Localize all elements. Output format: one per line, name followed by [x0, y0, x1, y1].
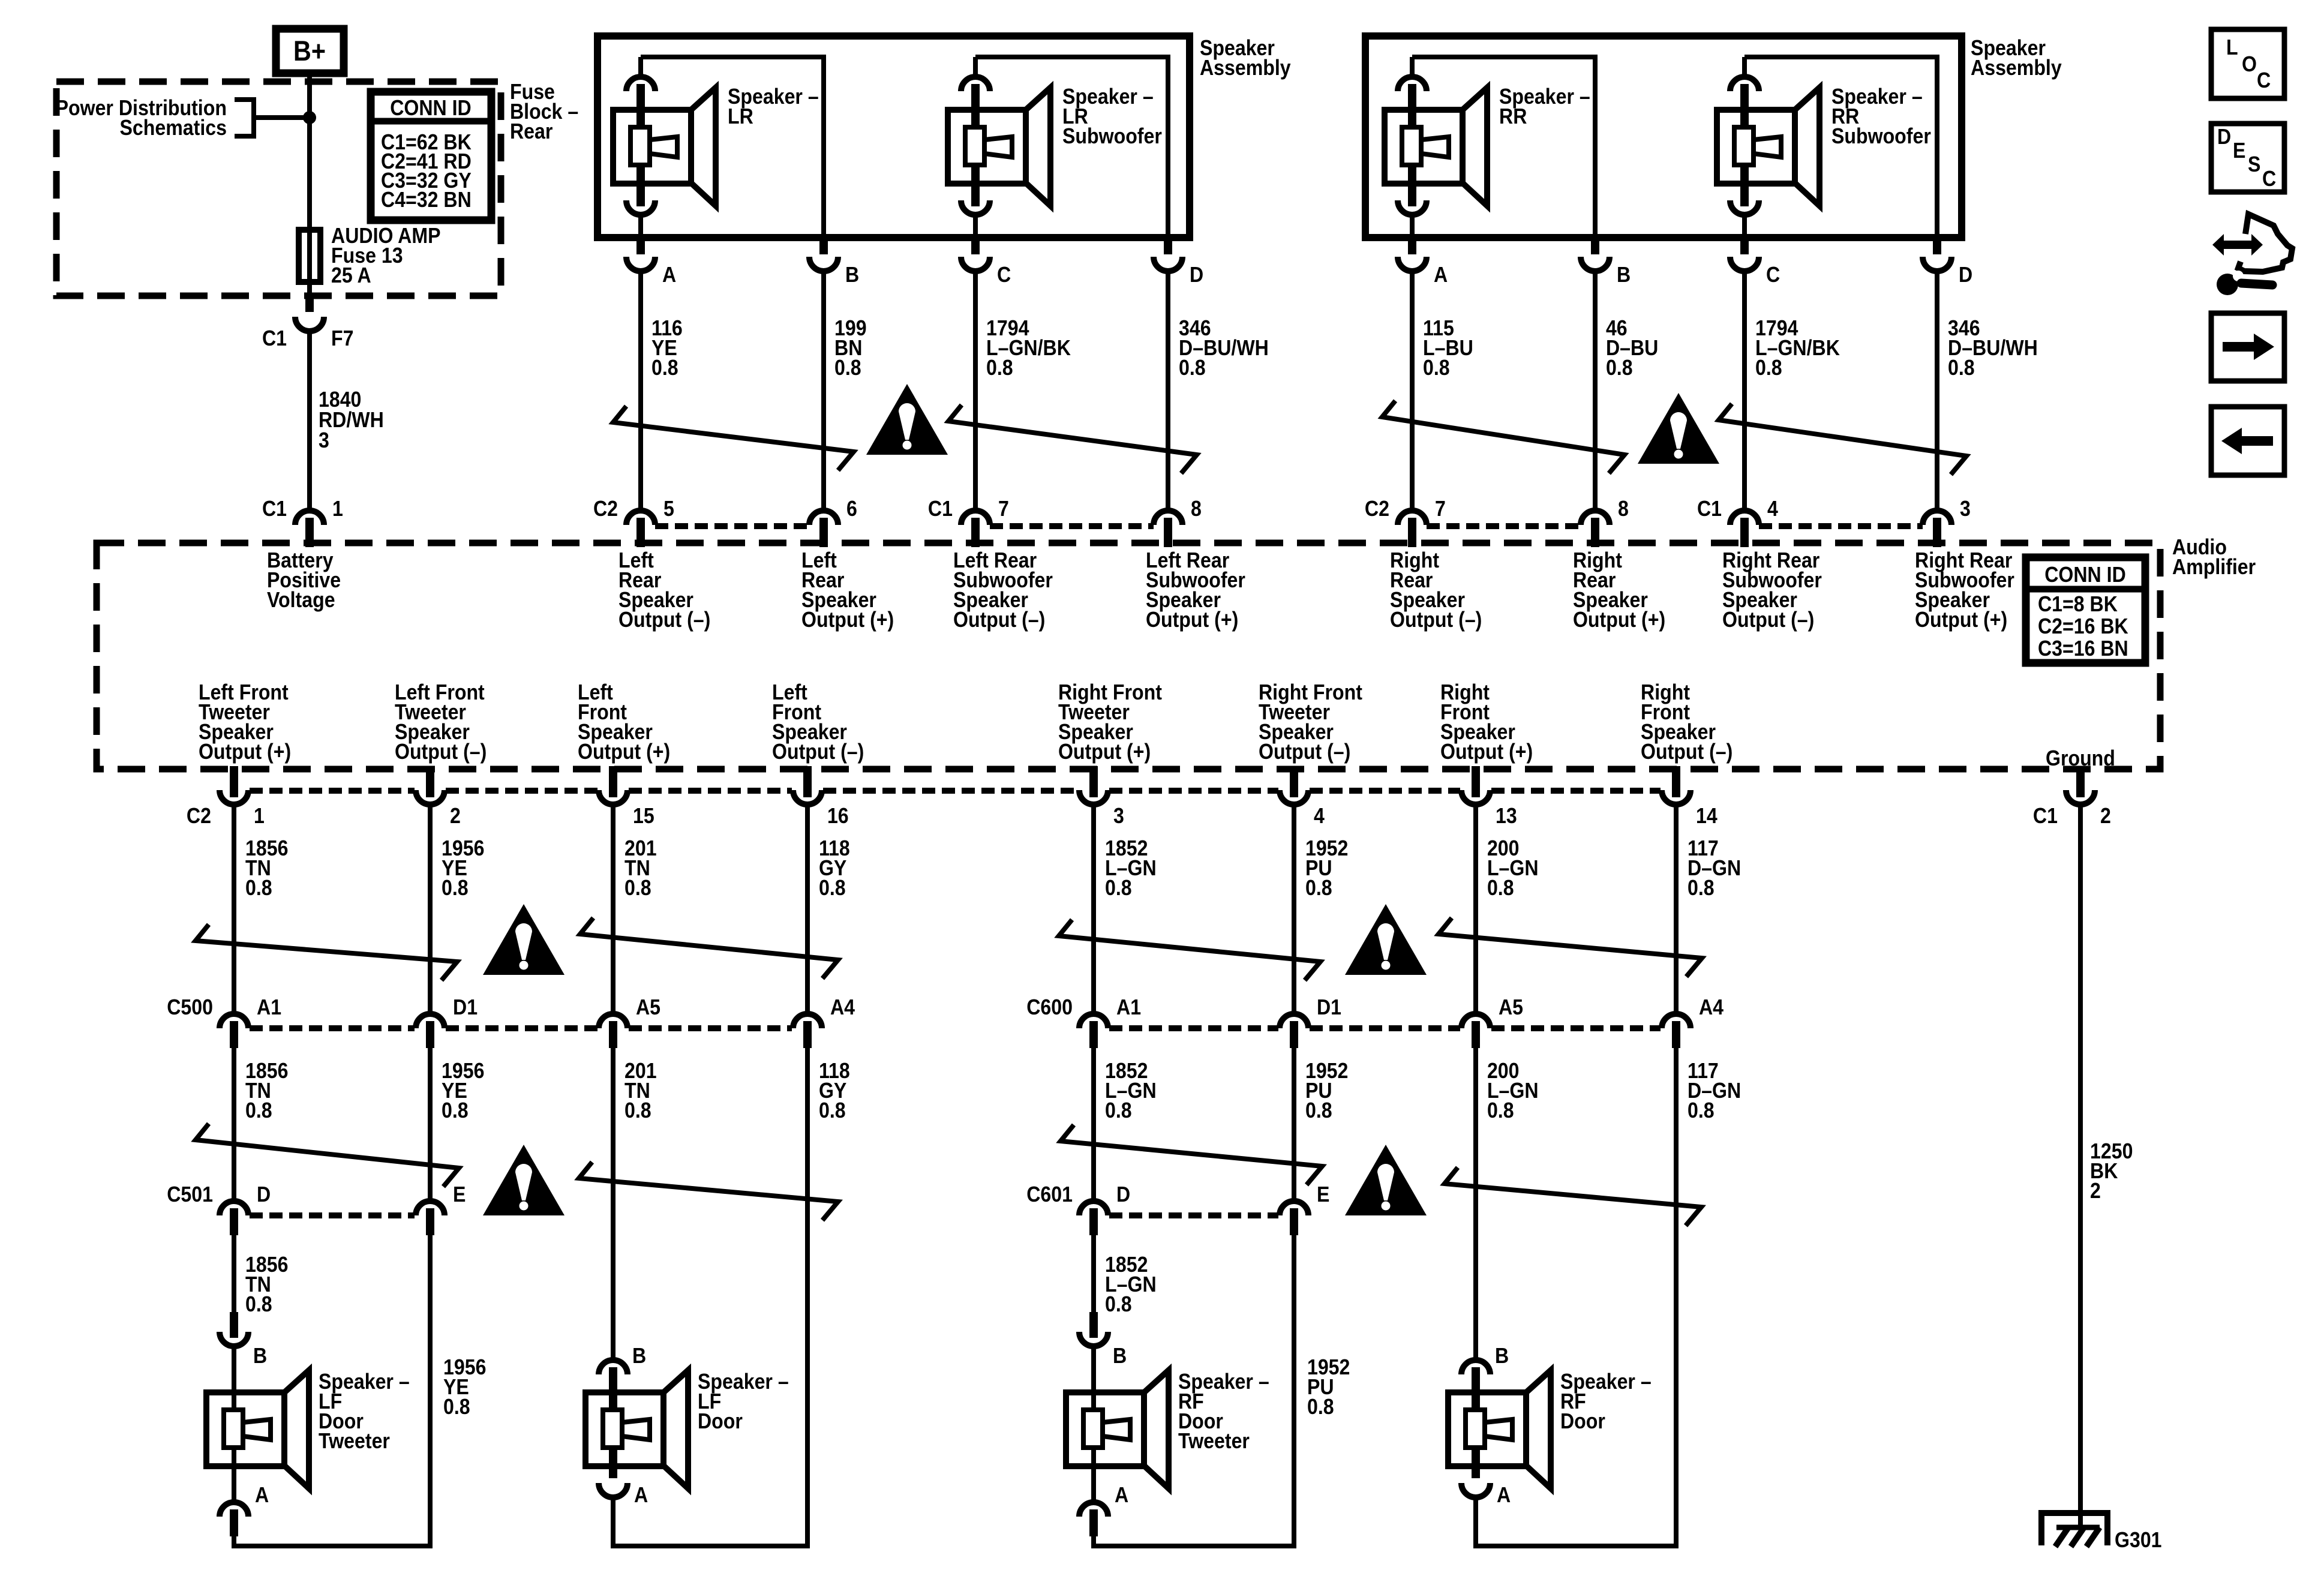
svg-text:S: S: [2248, 152, 2260, 176]
svg-text:Door: Door: [698, 1409, 743, 1433]
svg-text:3: 3: [1960, 497, 1971, 521]
connector C600 pin D1: [1280, 1014, 1308, 1048]
connector C601 pin D: [1079, 1201, 1108, 1235]
speaker symbol Speaker – LF Door: [585, 1370, 688, 1488]
svg-text:0.8: 0.8: [624, 1098, 651, 1122]
svg-text:1: 1: [254, 804, 265, 828]
label C1 F7: [262, 326, 354, 350]
twisted-pair symbol pair 1852/1952: [1059, 920, 1320, 980]
connector C500 pin A5: [599, 1014, 627, 1048]
wire 1852 L–GN (C501 to tweeter): [1091, 1235, 1096, 1314]
svg-text:6: 6: [846, 497, 857, 521]
svg-text:B: B: [1113, 1344, 1127, 1368]
wire 115 L–BU (speaker to amplifier): [1410, 271, 1415, 511]
amplifier label Left Front Speaker Output (–): [772, 680, 864, 764]
junction node dot: [303, 111, 316, 124]
wire top terminal of Speaker – RR: [1410, 57, 1415, 78]
svg-text:L: L: [2226, 35, 2238, 59]
wire 1250 BK 2 (ground): [2078, 804, 2083, 1527]
svg-text:D: D: [1116, 1182, 1130, 1206]
warning triangle door right pair: [1345, 1145, 1427, 1215]
label wire 1856 TN (below C500/C600): [245, 1059, 288, 1122]
svg-text:C1=8 BK: C1=8 BK: [2038, 592, 2118, 616]
svg-text:D: D: [2217, 125, 2231, 149]
dotted connector line C600: [1109, 1025, 1278, 1031]
amplifier output pin 4: [1280, 766, 1308, 804]
wire 1952 PU (below C500/C600): [1292, 1048, 1296, 1201]
wire 117 D–GN (amplifier to connector): [1674, 804, 1679, 1014]
svg-text:B: B: [1617, 263, 1631, 287]
twisted-pair symbol pair 201/118 lower: [579, 1162, 838, 1220]
connector at bottom terminal of Speaker – RR Subwoofer: [1730, 165, 1759, 215]
svg-text:4: 4: [1314, 804, 1325, 828]
svg-text:0.8: 0.8: [986, 356, 1013, 380]
connector pin A of Speaker – RF Door: [1461, 1448, 1490, 1497]
svg-text:Output (+): Output (+): [199, 740, 291, 764]
wire return loop 1022-1346: [613, 1048, 807, 1546]
label Speaker – RF Door: [1560, 1370, 1652, 1433]
label Speaker – LF Door: [698, 1370, 789, 1433]
connector C500 pin A4: [793, 1014, 822, 1048]
label wire 1956 YE: [442, 836, 484, 900]
amplifier label Right Rear Subwoofer Speaker Output (–): [1722, 548, 1822, 632]
svg-text:C601: C601: [1026, 1182, 1073, 1206]
wire return loop 2460-2794: [1476, 1048, 1676, 1546]
wire 1840 RD/WH 3 battery feed to amplifier: [307, 331, 312, 511]
wire pin A of Speaker – RF Door to loop: [1473, 1497, 1478, 1548]
amplifier output pin 1 conn C2: [220, 766, 248, 804]
speaker symbol Speaker – RF Door Tweeter: [1066, 1370, 1169, 1488]
svg-text:A: A: [634, 1483, 648, 1507]
label wire 1952 PU (return): [1307, 1355, 1350, 1419]
icon box LOC: [2211, 29, 2284, 98]
connector C501 pin E: [416, 1201, 445, 1235]
connector C600 pin A4: [1662, 1014, 1691, 1048]
svg-text:13: 13: [1496, 804, 1517, 828]
svg-text:0.8: 0.8: [819, 876, 846, 900]
wire from bottom terminal of Speaker – LF Door Tweeter: [232, 1466, 236, 1503]
amplifier label Right Front Tweeter Speaker Output (+): [1058, 680, 1162, 764]
svg-text:D1: D1: [453, 995, 478, 1019]
svg-text:0.8: 0.8: [834, 356, 861, 380]
svg-text:0.8: 0.8: [245, 1292, 272, 1316]
svg-text:B+: B+: [293, 36, 326, 67]
assembly pin C (right): [1730, 235, 1759, 271]
label wire 117 D–GN (below C500/C600): [1688, 1059, 1741, 1122]
wire into top terminal of Speaker – LF Door Tweeter: [232, 1346, 236, 1466]
ground symbol G301: [2041, 1513, 2107, 1547]
connector pin A of Speaker – RF Door Tweeter: [1079, 1502, 1108, 1536]
wire return loop 1823-2157: [1094, 1235, 1294, 1546]
amplifier label Right Front Tweeter Speaker Output (–): [1259, 680, 1362, 764]
amplifier input pin 6 (second of pair): [809, 511, 838, 547]
connector at top terminal of Speaker – RR Subwoofer: [1730, 77, 1759, 127]
amplifier output pin 15: [599, 766, 627, 804]
amplifier label Left Front Tweeter Speaker Output (+): [199, 680, 291, 764]
svg-text:Tweeter: Tweeter: [1178, 1429, 1250, 1453]
svg-text:0.8: 0.8: [1688, 1098, 1715, 1122]
svg-text:C: C: [2262, 167, 2276, 191]
label Speaker – RR: [1499, 85, 1590, 128]
svg-text:Subwoofer: Subwoofer: [1831, 124, 1931, 148]
warning triangle left assembly: [866, 384, 948, 455]
amplifier label Right Front Speaker Output (–): [1641, 680, 1733, 764]
svg-text:C501: C501: [167, 1182, 213, 1206]
svg-text:A5: A5: [636, 995, 660, 1019]
svg-text:C2: C2: [593, 497, 618, 521]
amplifier label Right Front Speaker Output (+): [1440, 680, 1533, 764]
speaker symbol Speaker – RR: [1385, 88, 1487, 206]
svg-text:LR: LR: [728, 104, 753, 128]
label wire 1856 TN: [245, 836, 288, 900]
assembly pin A (right): [1398, 235, 1427, 271]
svg-text:A4: A4: [1699, 995, 1724, 1019]
label Speaker – LR Subwoofer: [1062, 85, 1162, 148]
svg-text:A1: A1: [1116, 995, 1141, 1019]
svg-text:A: A: [662, 263, 676, 287]
wire 1956 YE (amplifier to connector): [428, 804, 433, 1014]
fuse AUDIO AMP Fuse 13 25A: [299, 230, 320, 282]
label wire 1952 PU: [1305, 836, 1348, 900]
dotted connector line amp bottom pins 1-14: [250, 788, 415, 794]
assembly pin B (right): [1581, 235, 1610, 271]
svg-text:D1: D1: [1317, 995, 1341, 1019]
svg-text:Output (+): Output (+): [1146, 608, 1238, 632]
label wire 201 TN (below C500/C600): [624, 1059, 657, 1122]
label wire 1794 L–GN/BK: [986, 316, 1071, 380]
twisted-pair symbol LR subwoofer pair: [948, 405, 1197, 473]
label Power Distribution Schematics: [56, 96, 227, 140]
svg-text:Output (+): Output (+): [1440, 740, 1533, 764]
svg-text:7: 7: [1435, 497, 1446, 521]
connector C601 pin E: [1280, 1201, 1308, 1235]
svg-text:Output (–): Output (–): [1641, 740, 1733, 764]
warning triangle right assembly: [1638, 393, 1719, 464]
svg-text:C4=32 BN: C4=32 BN: [381, 188, 472, 212]
svg-text:Subwoofer: Subwoofer: [1062, 124, 1162, 148]
CONN ID table of fuse block: [371, 92, 491, 220]
amplifier label Right Rear Speaker Output (+): [1573, 548, 1665, 632]
label wire 201 TN: [624, 836, 657, 900]
label Speaker – LR: [728, 85, 819, 128]
svg-text:0.8: 0.8: [624, 876, 651, 900]
svg-text:Rear: Rear: [510, 119, 553, 143]
svg-text:C1: C1: [2033, 804, 2058, 828]
speaker symbol Speaker – LR Subwoofer: [948, 88, 1050, 206]
svg-text:A5: A5: [1499, 995, 1523, 1019]
label wire 115 L–BU: [1423, 316, 1473, 380]
assembly pin D (left): [1154, 235, 1182, 271]
svg-text:B: B: [1495, 1344, 1509, 1368]
twisted-pair symbol LR speaker pair: [613, 406, 854, 470]
svg-text:0.8: 0.8: [819, 1098, 846, 1122]
label Speaker – LF Door Tweeter: [319, 1370, 410, 1453]
connector C600 pin A1: [1079, 1014, 1108, 1048]
dotted connector line C601: [1109, 1212, 1278, 1218]
svg-text:C2=16 BK: C2=16 BK: [2038, 614, 2128, 638]
warning triangle front right pair: [1345, 904, 1427, 975]
twisted-pair symbol pair 201/118: [580, 918, 838, 978]
svg-text:0.8: 0.8: [1105, 876, 1132, 900]
CONN ID table of amplifier: [2026, 557, 2145, 663]
svg-text:CONN ID: CONN ID: [2044, 563, 2126, 587]
speaker symbol Speaker – RF Door: [1448, 1370, 1551, 1488]
wire loop inside assembly for Speaker – LR: [641, 57, 824, 238]
wire pin A of Speaker – LF Door to loop: [611, 1497, 615, 1548]
svg-text:Output (+): Output (+): [578, 740, 670, 764]
icon box arrow right: [2211, 313, 2284, 381]
svg-text:F7: F7: [331, 326, 353, 350]
icon diagnostic tool (arrow, outline, wrench): [2212, 214, 2292, 295]
svg-text:7: 7: [998, 497, 1009, 521]
svg-text:0.8: 0.8: [245, 876, 272, 900]
wire loop inside assembly for Speaker – RR: [1412, 57, 1595, 238]
label wire 116 YE: [651, 316, 683, 380]
speaker symbol Speaker – LF Door Tweeter: [206, 1370, 309, 1488]
svg-text:0.8: 0.8: [1307, 1395, 1334, 1419]
wire 1952 PU (amplifier to connector): [1292, 804, 1296, 1014]
connector pin A of Speaker – LF Door: [599, 1448, 627, 1497]
label wire 200 L–GN (below C500/C600): [1487, 1059, 1539, 1122]
svg-text:2: 2: [2090, 1179, 2101, 1203]
amplifier label Left Rear Speaker Output (+): [801, 548, 894, 632]
svg-text:5: 5: [663, 497, 674, 521]
twisted-pair symbol RR speaker pair: [1382, 401, 1625, 473]
twisted-pair symbol pair 200/117 lower: [1445, 1167, 1701, 1226]
connector at bottom terminal of Speaker – RR: [1398, 165, 1427, 215]
wire 1794 L–GN/BK (speaker to amplifier): [973, 271, 978, 511]
amplifier label Left Front Tweeter Speaker Output (–): [395, 680, 487, 764]
wire 117 D–GN (below C500/C600): [1674, 1048, 1679, 1546]
wire 346 D–BU/WH (speaker to amplifier): [1935, 271, 1939, 511]
svg-text:0.8: 0.8: [651, 356, 678, 380]
svg-text:D: D: [257, 1182, 271, 1206]
wire from B+ through fuse block: [307, 73, 312, 298]
dotted connector line amp top pins 5-6: [655, 523, 809, 529]
amplifier label Right Rear Speaker Output (–): [1390, 548, 1482, 632]
wire 1856 TN (C501 to tweeter): [232, 1235, 236, 1314]
wire 116 YE (speaker to amplifier): [638, 271, 643, 511]
svg-text:Output (–): Output (–): [953, 608, 1045, 632]
svg-text:A: A: [255, 1483, 269, 1507]
twisted-pair symbol pair 1852/1952 lower: [1061, 1125, 1322, 1185]
svg-text:14: 14: [1696, 804, 1718, 828]
svg-text:CONN ID: CONN ID: [390, 96, 472, 120]
amplifier input pin 8 (second of pair): [1154, 511, 1182, 547]
warning triangle door left pair: [483, 1145, 565, 1215]
connector C500 pin A1: [220, 1014, 248, 1048]
wire 1856 TN (below C500/C600): [232, 1048, 236, 1201]
wire 1852 L–GN (below C500/C600): [1091, 1048, 1096, 1201]
svg-text:Assembly: Assembly: [1971, 56, 2062, 80]
svg-text:8: 8: [1191, 497, 1202, 521]
amplifier output pin 13: [1461, 766, 1490, 804]
dotted connector line C500: [250, 1025, 415, 1031]
amplifier output pin 14: [1662, 766, 1691, 804]
svg-text:0.8: 0.8: [1688, 876, 1715, 900]
svg-text:0.8: 0.8: [1487, 1098, 1514, 1122]
wire into top terminal of Speaker – RF Door Tweeter: [1091, 1346, 1096, 1466]
svg-text:0.8: 0.8: [442, 1098, 469, 1122]
svg-text:0.8: 0.8: [245, 1098, 272, 1122]
svg-text:Assembly: Assembly: [1200, 56, 1291, 80]
connector pin B of Speaker – RF Door: [1461, 1360, 1490, 1411]
wire bottom terminal of Speaker – RR Subwoofer to assembly edge: [1742, 215, 1747, 240]
label Fuse Block - Rear: [510, 80, 578, 143]
amplifier input pin 5 (conn C2): [626, 511, 655, 547]
svg-text:A4: A4: [830, 995, 855, 1019]
label Speaker – RF Door Tweeter: [1178, 1370, 1269, 1453]
amplifier label Left Front Speaker Output (+): [578, 680, 670, 764]
label wire 1852 L–GN (below C500/C600): [1105, 1059, 1157, 1122]
svg-text:Output (–): Output (–): [1259, 740, 1350, 764]
label wire 1794 L–GN/BK: [1755, 316, 1840, 380]
svg-text:3: 3: [319, 428, 329, 452]
svg-text:C3=16 BN: C3=16 BN: [2038, 637, 2128, 661]
speaker assembly box (left): [597, 36, 1190, 238]
bracket to Power Distribution Schematics: [235, 100, 254, 136]
svg-text:Output (–): Output (–): [618, 608, 710, 632]
wire 1956 YE (below C500/C600): [428, 1048, 433, 1201]
svg-text:C: C: [997, 263, 1011, 287]
svg-text:A: A: [1115, 1483, 1128, 1507]
label wire 118 GY (below C500/C600): [819, 1059, 850, 1122]
connector at top terminal of Speaker – LR: [626, 77, 655, 127]
connector C1 F7 at fuse block output: [295, 294, 324, 331]
label Speaker – RR Subwoofer: [1831, 85, 1931, 148]
svg-text:B: B: [845, 263, 859, 287]
svg-text:3: 3: [1113, 804, 1124, 828]
svg-text:Amplifier: Amplifier: [2172, 555, 2256, 579]
svg-text:A1: A1: [257, 995, 281, 1019]
amplifier input pin 3 (second of pair): [1923, 511, 1951, 547]
amplifier label Battery Positive Voltage: [267, 548, 341, 612]
wire loop inside assembly for Speaker – RR Subwoofer: [1744, 57, 1937, 238]
svg-text:O: O: [2242, 52, 2257, 76]
label wire 1852 L–GN (to tweeter): [1105, 1253, 1157, 1316]
label wire 1852 L–GN: [1105, 836, 1157, 900]
svg-text:Voltage: Voltage: [267, 588, 335, 612]
svg-text:0.8: 0.8: [1755, 356, 1782, 380]
amplifier label Left Rear Subwoofer Speaker Output (+): [1146, 548, 1245, 632]
svg-text:Output (+): Output (+): [1915, 608, 2007, 632]
amplifier input pin 1 (conn C1): [295, 511, 324, 547]
connector pin B of Speaker – LF Door: [599, 1360, 627, 1411]
audio amplifier dashed box: [97, 543, 2160, 769]
svg-text:2: 2: [2100, 804, 2111, 828]
speaker assembly box (right): [1365, 36, 1962, 238]
label wire 1250 BK 2: [2090, 1139, 2133, 1203]
connector pin B of Speaker – LF Door Tweeter: [220, 1312, 248, 1346]
icon box DESC: [2211, 124, 2284, 192]
assembly pin D (right): [1923, 235, 1951, 271]
svg-text:C: C: [1766, 263, 1780, 287]
label wire 199 BN: [834, 316, 867, 380]
fuse block dashed box (Fuse Block - Rear): [56, 82, 501, 296]
wire loop inside assembly for Speaker – LR Subwoofer: [975, 57, 1168, 238]
wire 118 GY (amplifier to connector): [805, 804, 810, 1014]
svg-text:B: B: [632, 1344, 646, 1368]
wire from bottom terminal of Speaker – RF Door Tweeter: [1091, 1466, 1096, 1503]
connector at bottom terminal of Speaker – LR Subwoofer: [961, 165, 990, 215]
svg-text:C1: C1: [262, 326, 287, 350]
connector at top terminal of Speaker – LR Subwoofer: [961, 77, 990, 127]
label wire 1952 PU (below C500/C600): [1305, 1059, 1348, 1122]
svg-text:C2: C2: [187, 804, 211, 828]
connector pin A of Speaker – LF Door Tweeter: [220, 1502, 248, 1536]
svg-text:B: B: [253, 1344, 267, 1368]
amplifier label Right Rear Subwoofer Speaker Output (+): [1915, 548, 2014, 632]
svg-text:C1: C1: [1697, 497, 1722, 521]
assembly pin B (left): [809, 235, 838, 271]
label Audio Amplifier: [2172, 535, 2256, 579]
svg-text:G301: G301: [2115, 1528, 2162, 1552]
label Speaker Assembly (left): [1200, 36, 1291, 80]
speaker symbol Speaker – RR Subwoofer: [1717, 88, 1819, 206]
label Speaker Assembly (right): [1971, 36, 2062, 80]
label wire 1956 YE (below C500/C600): [442, 1059, 484, 1122]
twisted-pair symbol RR subwoofer pair: [1719, 404, 1966, 475]
svg-text:0.8: 0.8: [1305, 876, 1332, 900]
connector C500 pin D1: [416, 1014, 445, 1048]
svg-text:Output (+): Output (+): [1573, 608, 1665, 632]
label wire 346 D–BU/WH: [1948, 316, 2038, 380]
amplifier input pin 7 (conn C1): [961, 511, 990, 547]
svg-text:C500: C500: [167, 995, 213, 1019]
svg-text:25 A: 25 A: [331, 263, 371, 287]
amplifier input pin 7 (conn C2): [1398, 511, 1427, 547]
svg-text:16: 16: [827, 804, 849, 828]
svg-text:4: 4: [1767, 497, 1778, 521]
wire top terminal of Speaker – LR Subwoofer: [973, 57, 978, 78]
label wire 1840 RD/WH 3: [319, 388, 384, 452]
svg-text:C: C: [2257, 68, 2271, 92]
amplifier output pin 16: [793, 766, 822, 804]
svg-text:0.8: 0.8: [1606, 356, 1633, 380]
wire 46 D–BU (speaker to amplifier): [1593, 271, 1598, 511]
dotted connector line amp top pins 7-8: [990, 523, 1154, 529]
svg-text:RR: RR: [1499, 104, 1527, 128]
amplifier input pin 8 (second of pair): [1581, 511, 1610, 547]
dotted connector line amp top pins 4-3: [1759, 523, 1923, 529]
connector at top terminal of Speaker – RR: [1398, 77, 1427, 127]
connector pin B of Speaker – RF Door Tweeter: [1079, 1312, 1108, 1346]
connector at bottom terminal of Speaker – LR: [626, 165, 655, 215]
svg-text:D: D: [1190, 263, 1203, 287]
label AUDIO AMP Fuse 13 25 A: [331, 224, 441, 287]
svg-text:Output (–): Output (–): [1390, 608, 1482, 632]
amplifier input pin 4 (conn C1): [1730, 511, 1759, 547]
B+ battery positive voltage terminal: [276, 29, 344, 73]
svg-text:2: 2: [450, 804, 461, 828]
svg-text:Door: Door: [1560, 1409, 1605, 1433]
assembly pin A (left): [626, 235, 655, 271]
svg-text:1: 1: [332, 497, 343, 521]
svg-text:0.8: 0.8: [443, 1395, 470, 1419]
svg-text:C600: C600: [1026, 995, 1073, 1019]
warning triangle front left pair: [483, 904, 565, 975]
twisted-pair symbol pair 1856/1956: [196, 924, 457, 980]
svg-text:0.8: 0.8: [1105, 1292, 1132, 1316]
svg-text:Schematics: Schematics: [120, 116, 227, 140]
svg-text:0.8: 0.8: [1423, 356, 1450, 380]
dotted connector line C501: [250, 1212, 415, 1218]
assembly pin C (left): [961, 235, 990, 271]
amplifier output pin 2: [416, 766, 445, 804]
wire 200 L–GN (below C500/C600): [1473, 1048, 1478, 1360]
svg-text:0.8: 0.8: [1948, 356, 1975, 380]
svg-text:15: 15: [633, 804, 654, 828]
